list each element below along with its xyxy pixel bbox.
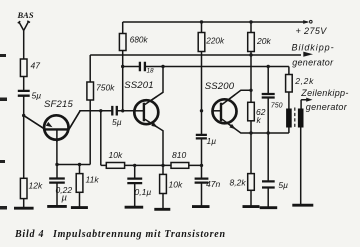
svg-text:SF215: SF215 [44,99,74,110]
svg-text:1µ: 1µ [207,136,217,146]
svg-text:47: 47 [31,61,41,71]
svg-text:10k: 10k [109,150,123,160]
svg-text:11k: 11k [86,175,100,185]
svg-text:5µ: 5µ [112,117,122,127]
svg-text:20k: 20k [256,36,271,46]
svg-text:Impulsabtrennung mit Transisto: Impulsabtrennung mit Transistoren [52,229,226,240]
svg-text:SS200: SS200 [205,81,235,92]
svg-text:BAS: BAS [17,10,34,20]
svg-text:µ: µ [62,193,68,204]
svg-text:generator: generator [306,102,348,112]
svg-text:18: 18 [147,68,155,75]
svg-text:0,1µ: 0,1µ [135,187,152,197]
svg-text:750: 750 [271,103,283,110]
svg-text:Zeilenkipp-: Zeilenkipp- [300,88,348,98]
svg-text:750k: 750k [96,83,115,93]
svg-text:10k: 10k [169,180,183,190]
svg-text:Bildkipp-: Bildkipp- [292,43,335,53]
svg-text:2,2k: 2,2k [294,76,314,86]
svg-text:5µ: 5µ [278,180,288,190]
svg-text:47n: 47n [206,179,220,189]
svg-text:220k: 220k [205,37,225,46]
svg-text:Bild 4: Bild 4 [14,229,44,240]
svg-text:810: 810 [172,150,186,160]
svg-text:12k: 12k [29,181,43,191]
svg-text:generator: generator [292,58,334,68]
svg-text:5µ: 5µ [32,91,42,101]
svg-text:680k: 680k [130,36,149,45]
svg-text:SS201: SS201 [124,80,154,91]
svg-text:8,2k: 8,2k [230,178,247,188]
svg-text:+ 275V: + 275V [296,26,328,36]
